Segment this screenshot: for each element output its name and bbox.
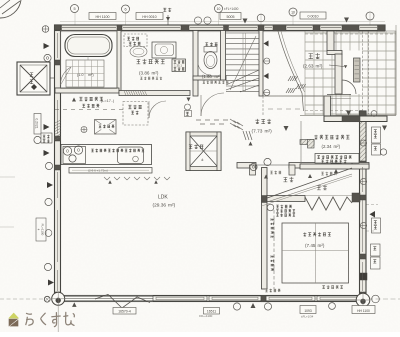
svg-text:10: 10 (217, 7, 221, 11)
svg-text:m²): m²) (88, 73, 94, 77)
svg-text:HH 0010: HH 0010 (142, 15, 156, 19)
svg-text:(L=17..): (L=17..) (101, 99, 115, 103)
svg-text:16511: 16511 (207, 310, 216, 314)
svg-text:0.2021: 0.2021 (35, 118, 39, 128)
svg-text:HH 1100: HH 1100 (357, 309, 370, 313)
svg-text:m²): m²) (215, 74, 222, 79)
svg-text:(29.36: (29.36 (153, 203, 167, 209)
svg-text:5005: 5005 (227, 15, 235, 19)
svg-text:(2.63: (2.63 (303, 64, 314, 69)
svg-text:(2.34: (2.34 (322, 144, 333, 149)
svg-text:1093: 1093 (304, 309, 312, 313)
svg-text:0 0010: 0 0010 (308, 15, 319, 19)
svg-text:m²): m²) (318, 243, 325, 248)
svg-text:(1.0: (1.0 (77, 73, 84, 77)
svg-text:±FL+1/34: ±FL+1/34 (301, 315, 314, 319)
svg-text:5: 5 (73, 7, 75, 11)
svg-text:16570-4: 16570-4 (118, 310, 131, 314)
svg-text:m²): m²) (152, 71, 159, 76)
svg-text:m²): m²) (168, 203, 176, 209)
svg-text:6: 6 (124, 8, 126, 12)
svg-text:m²): m²) (265, 129, 273, 135)
svg-text:m²): m²) (334, 144, 341, 149)
svg-text:(2-8 6 +1.75m): (2-8 6 +1.75m) (88, 169, 108, 173)
svg-text:HH 1100: HH 1100 (96, 15, 110, 19)
svg-text:(3.86: (3.86 (139, 71, 150, 76)
svg-text:LDK: LDK (158, 195, 168, 201)
svg-text:m²): m²) (316, 64, 323, 69)
svg-text:(7.73: (7.73 (252, 129, 263, 135)
svg-text:1.35.1: 1.35.1 (174, 64, 182, 68)
svg-text:±FL+1100: ±FL+1100 (199, 314, 213, 318)
svg-text:10: 10 (291, 11, 295, 15)
svg-text:±FL+1400: ±FL+1400 (224, 7, 239, 11)
svg-text:(7.45: (7.45 (305, 243, 316, 248)
